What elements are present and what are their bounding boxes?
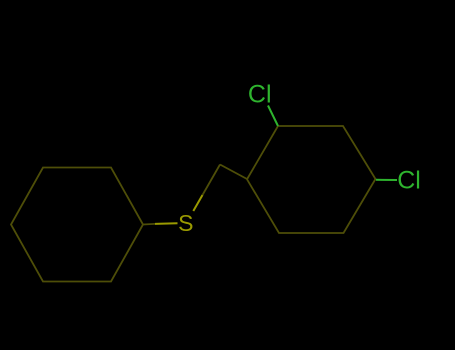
bond C2'-Cl (ortho chlorine bond, green): [268, 106, 278, 127]
bond C4'-Cl (para chlorine bond, green): [376, 179, 397, 181]
svg-text:Cl: Cl: [397, 166, 421, 194]
2,4-dichlorophenyl ring (right benzene ring): [247, 126, 376, 233]
bond S-CH2 (carbon side, dark): [203, 165, 221, 196]
bond C1-S bright half (sulfur side): [155, 222, 178, 225]
bond S-CH2 (sulfur side, bright): [193, 195, 202, 211]
bond CH2-C1' (carbon side, dark): [220, 165, 247, 180]
phenyl ring (left benzene ring): [11, 168, 143, 282]
svg-text:S: S: [178, 210, 193, 236]
svg-text:Cl: Cl: [248, 81, 272, 109]
bond C1-S dark half (carbon side): [143, 223, 155, 226]
